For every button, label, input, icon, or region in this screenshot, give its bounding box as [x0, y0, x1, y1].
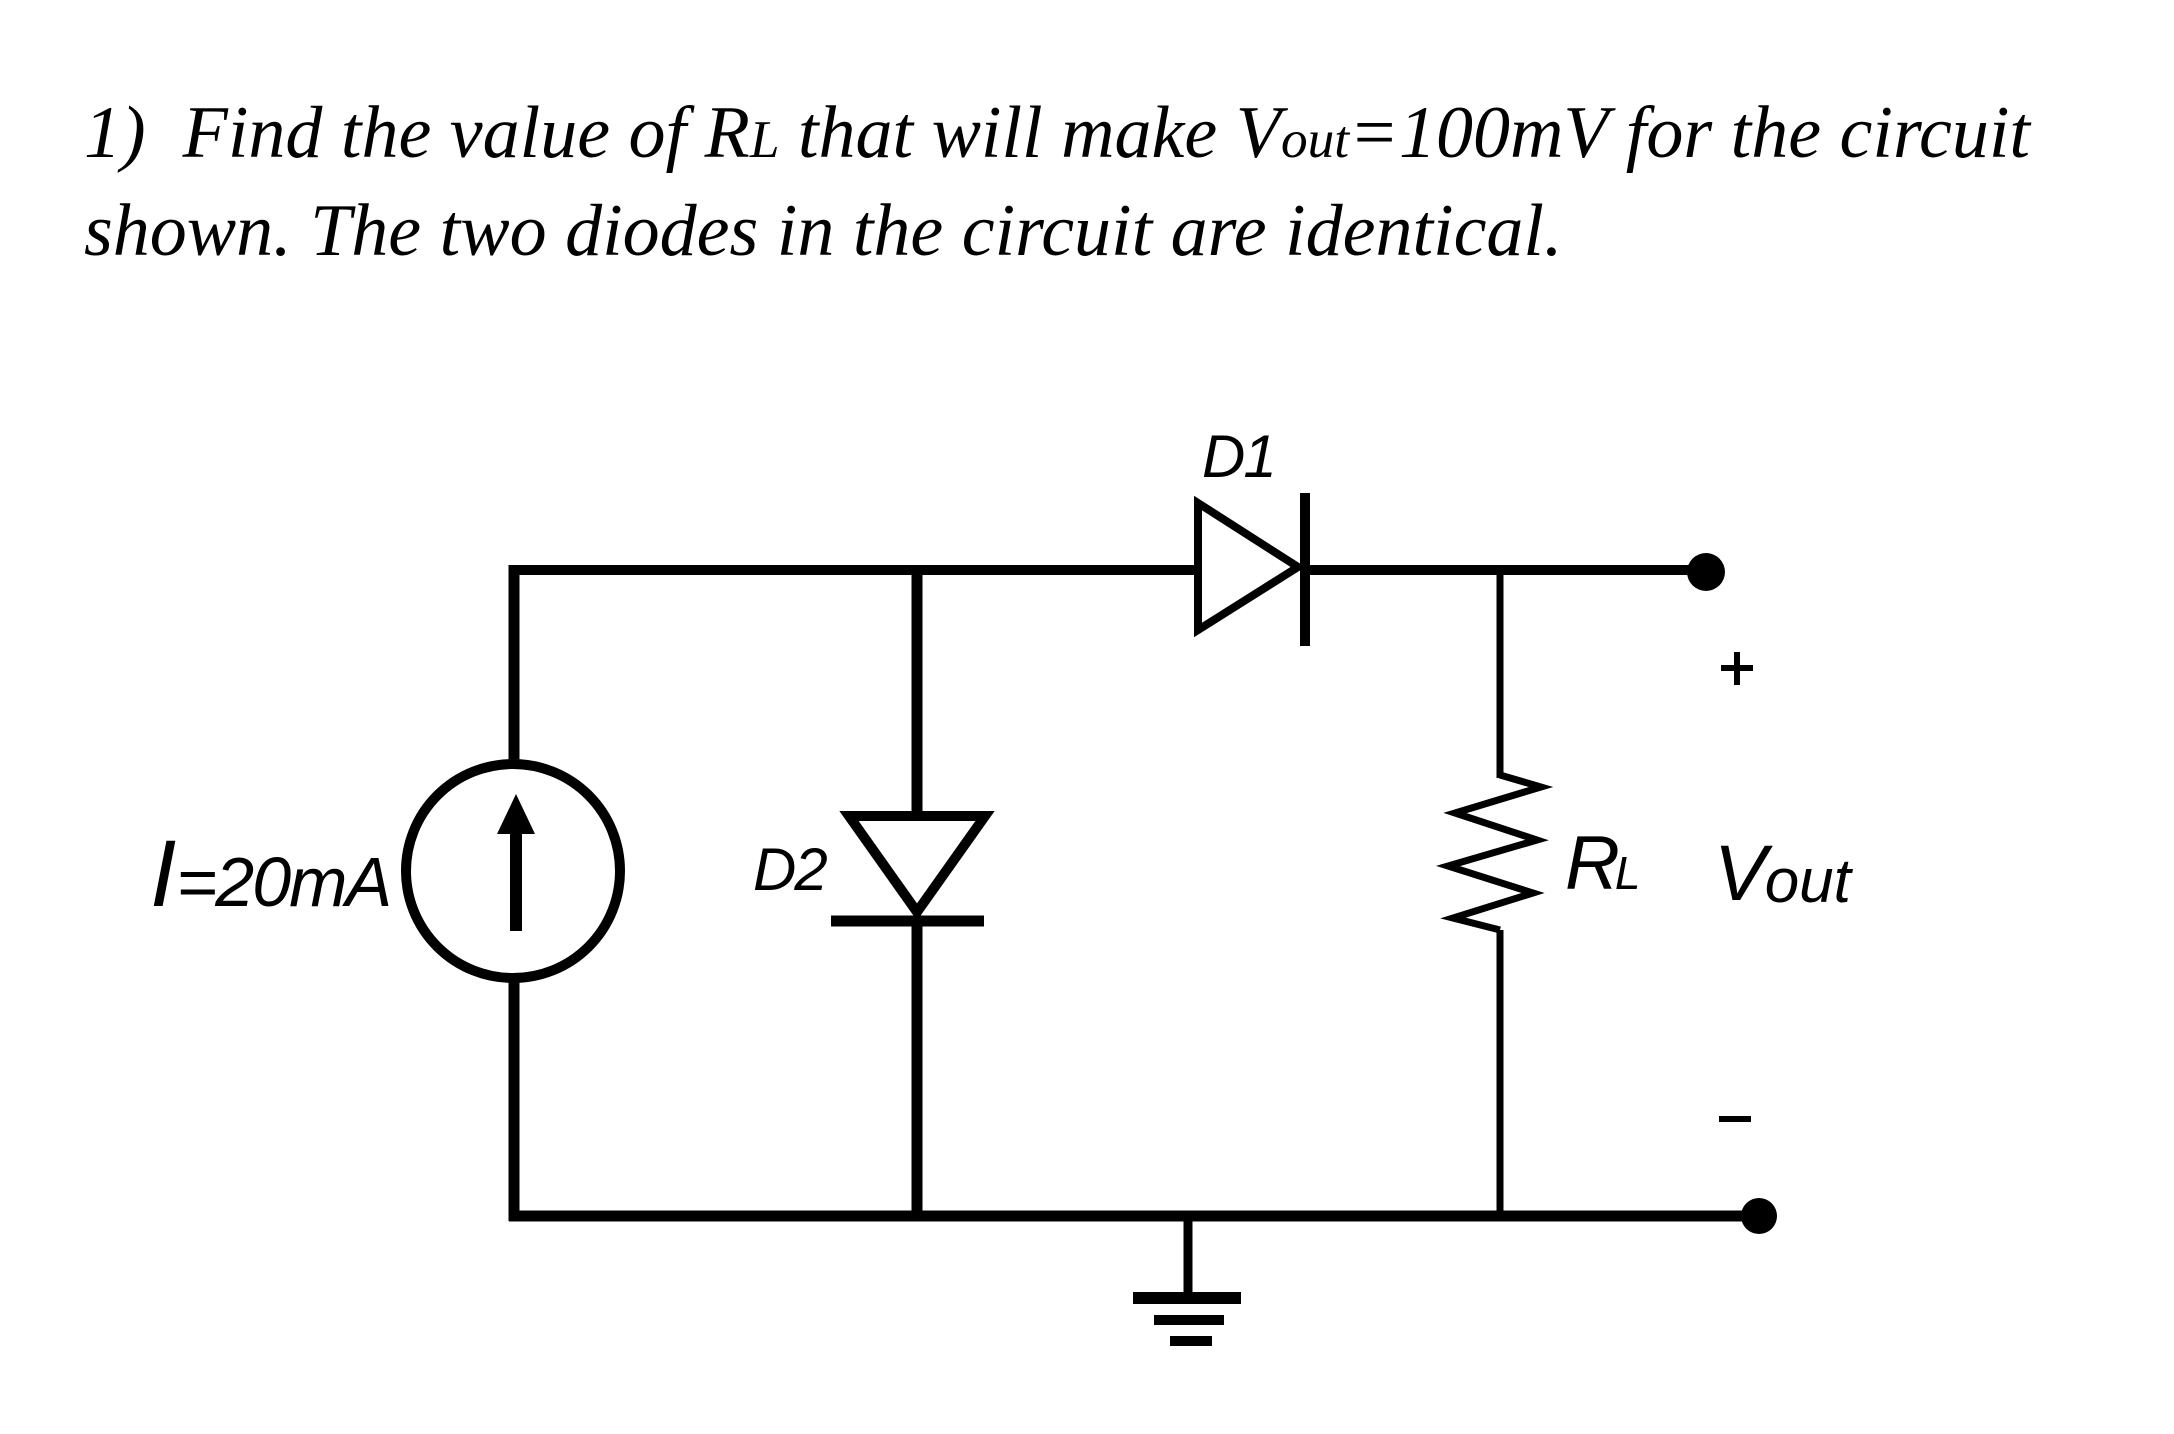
node: output - terminal dot — [1741, 1198, 1777, 1234]
ground bar 3 — [1170, 1336, 1212, 1346]
svg-text:D2: D2 — [753, 836, 827, 903]
diode D2 cathode bar — [831, 916, 984, 927]
svg-text:D1: D1 — [1202, 423, 1275, 490]
wire: top rail right segment (D1 cathode to output node) — [1305, 565, 1690, 575]
minus sign of Vout — [1719, 1116, 1751, 1122]
plus sign of Vout — [1721, 652, 1753, 685]
current source I1 circle — [406, 764, 620, 978]
wire: RL branch vertical from top rail to resistor top — [1497, 565, 1504, 778]
svg-text:I=20mA: I=20mA — [150, 821, 390, 927]
wire: D2 branch vertical from top rail to D2 anode — [912, 565, 923, 818]
node: output + terminal dot — [1687, 553, 1725, 591]
ground stem — [1184, 1216, 1193, 1298]
wire: resistor bottom to bottom rail — [1497, 930, 1504, 1221]
current source I1 arrow head — [497, 794, 535, 834]
wire: left vertical from current source bottom to bottom rail — [509, 979, 520, 1221]
diode D2 triangle — [849, 816, 985, 912]
problem statement line 1 — [84, 91, 2030, 176]
diode D1 cathode bar — [1300, 493, 1310, 646]
ground bar 2 — [1154, 1315, 1224, 1325]
ground bar 1 — [1133, 1292, 1241, 1304]
svg-text:Vout: Vout — [1714, 828, 1854, 917]
wire: bottom rail — [509, 1211, 1759, 1222]
problem statement line 2 — [84, 189, 1562, 274]
wire: left vertical from top rail down to current source — [509, 565, 520, 763]
resistor RL zigzag — [1448, 775, 1541, 930]
current source I1 arrow shaft — [510, 828, 522, 931]
svg-text:RL: RL — [1565, 821, 1640, 906]
diode D1 triangle — [1198, 503, 1298, 630]
wire: top rail left segment (current source top to D1 anode) — [509, 565, 1198, 575]
wire: D2 cathode down to bottom rail — [912, 921, 923, 1221]
